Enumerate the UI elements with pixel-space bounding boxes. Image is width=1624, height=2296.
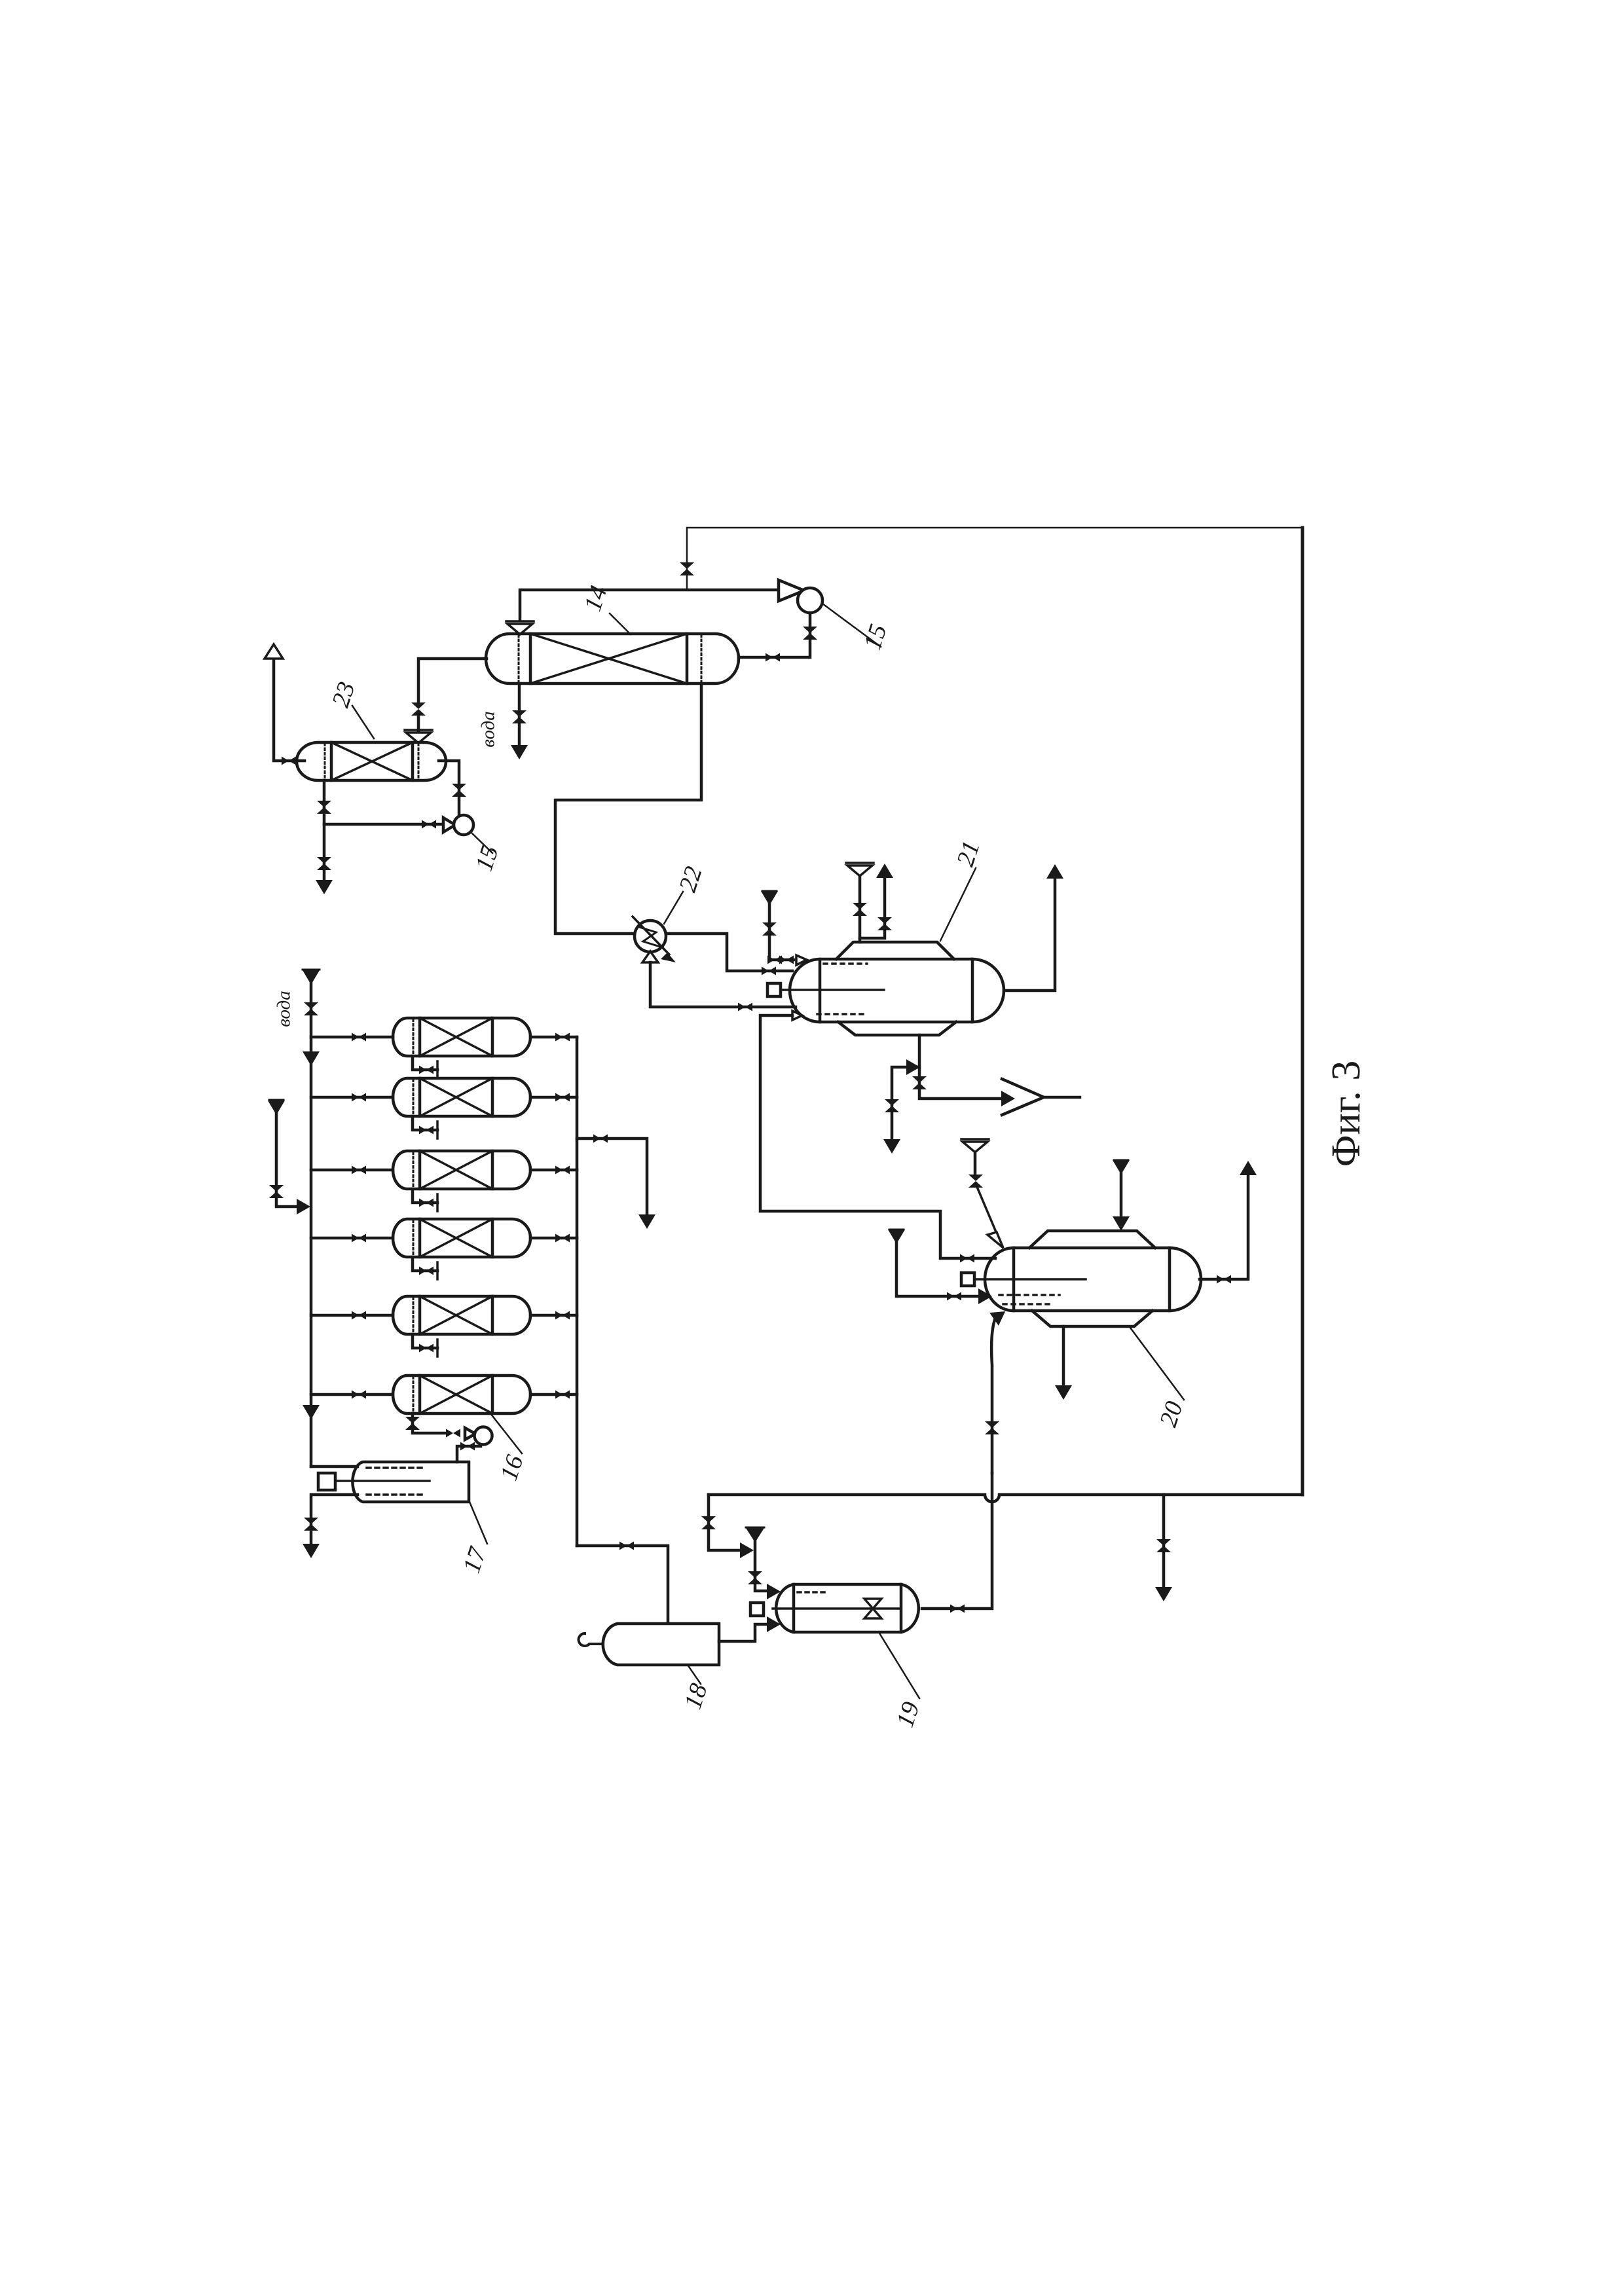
wire vessel 19 outlet riser (922, 1473, 992, 1609)
wire vessel 21 lower outlet down to vessel 20 (760, 1015, 995, 1258)
valve on recycle riser (680, 562, 694, 575)
open arrow vent at vessel 23 outlet (265, 644, 283, 659)
valve on drain lower (317, 857, 331, 870)
wire top feed onto vessel 20 (1120, 1171, 1123, 1218)
flow arrow on manifold lower (303, 1405, 320, 1419)
valve on vessel 21 feed (762, 967, 776, 975)
adsorber vessel 16 row 5 (393, 1296, 530, 1334)
valve row 3 drain (419, 1199, 434, 1207)
valve on recycle drop (701, 1516, 716, 1529)
wire top recycle line (687, 528, 1302, 590)
wire vessel 21 bottom outlet (919, 1035, 1002, 1099)
label 20 with leader (1130, 1328, 1184, 1400)
label 23 with leader (352, 706, 374, 738)
wire row 2 left connection (311, 1096, 393, 1099)
valve row 3 right (555, 1166, 570, 1175)
funnel vent on vessel 21 top (846, 863, 874, 876)
wire right manifold to vessel 18 (577, 1546, 668, 1622)
wire row 6 right connection (530, 1393, 577, 1396)
wire right manifold (576, 1037, 579, 1546)
label 15 upper with leader (822, 604, 881, 647)
wire vent with arrow on vessel 21 top (860, 877, 885, 938)
svg-text:вода: вода (274, 991, 295, 1027)
wire vessel 18 outlet to vessel 19 (719, 1624, 767, 1641)
feed origin marker (762, 890, 777, 892)
wire vessel 14 water drain (518, 683, 521, 745)
funnel inlet on vessel 14 (506, 621, 534, 634)
valve on vessel 23 left outlet (282, 757, 296, 765)
svg-text:Фиг. 3: Фиг. 3 (1324, 1061, 1369, 1167)
vessel 23 (297, 742, 446, 780)
valve before pump 16 (446, 1429, 460, 1438)
wire row 1 drain (413, 1056, 437, 1070)
funnel inlet on vessel 23 (405, 730, 432, 743)
valve on vessel 19 outlet (950, 1605, 965, 1613)
arrow regeneration outlet (638, 1214, 655, 1229)
wire row 5 left connection (311, 1314, 393, 1317)
valve on riser (985, 1421, 999, 1434)
wire top feed into vessel 21 (769, 902, 794, 960)
arrow feed into manifold (297, 1199, 310, 1214)
wire vessel 23 right outlet to pump (439, 761, 459, 815)
heat exchanger 22 (635, 920, 666, 952)
label 14 with leader (610, 613, 631, 634)
level gauge square on vessel 20 (961, 1273, 974, 1286)
vessel 14 (486, 634, 739, 683)
valve row 1 drain (419, 1066, 434, 1074)
arrow vent outlet (876, 864, 893, 878)
arrow bottom drain (1055, 1385, 1072, 1400)
adsorber vessel 16 row 1 (393, 1018, 530, 1056)
arrow product outlet up (1046, 864, 1063, 879)
svg-text:вода: вода (478, 711, 499, 748)
feed funnel marker above vessel 19 (746, 1527, 764, 1529)
adsorber vessel 16 row 3 (393, 1151, 530, 1189)
wire heat exchanger bottom line to vessel 21 lower inlet (650, 962, 796, 1007)
open triangle nozzle below heat exchanger (642, 951, 658, 962)
valve on drain branch (1156, 1539, 1171, 1552)
wire drain tee to pump 15 lower (324, 823, 443, 826)
arrow into vessel 20 left (978, 1288, 992, 1304)
wire branch from bottom outlet to drain (892, 1067, 919, 1139)
pump 15 upper (779, 580, 804, 601)
wire row 2 drain (413, 1116, 437, 1130)
valve on pump discharge riser (803, 627, 817, 640)
feed origin marker (269, 1099, 284, 1101)
wire row 5 drain (413, 1334, 437, 1348)
double valve on vessel 21 upper inlet (767, 956, 782, 964)
label 18 with leader (688, 1665, 701, 1684)
level gauge square on vessel 21 (767, 983, 781, 996)
wire row 1 left connection (311, 1036, 393, 1039)
valve on drain upper (317, 801, 331, 814)
wire feed to vessel 14 funnel (520, 590, 779, 621)
label 17 with leader (470, 1502, 487, 1544)
arrow into junction (906, 1059, 920, 1075)
hook vent on vessel 18 (579, 1633, 601, 1646)
valve on vessel 20 upper inlet (960, 1254, 974, 1263)
wire vessel 20 bottom drain (1062, 1326, 1065, 1385)
wire funnel line to vessel 20 (974, 1152, 977, 1176)
wire manifold into tank 17 top (311, 1465, 358, 1468)
valve on pump 16 discharge (460, 1442, 475, 1451)
wire regeneration branch (577, 1139, 647, 1214)
wire row 5 right connection (530, 1314, 577, 1317)
label 22 with leader (664, 892, 683, 924)
valve on vessel 23 right outlet (452, 784, 466, 797)
valve row 1 left (352, 1033, 366, 1042)
arrow into vessel 19 lower left (767, 1616, 781, 1632)
level gauge square on tank 17 (318, 1473, 335, 1490)
label 16 with leader (490, 1413, 522, 1453)
arrow drain outlet (316, 880, 333, 894)
tank 17 (352, 1462, 469, 1502)
wire vessel 23 bottom drain (323, 780, 326, 881)
valve row 5 drain (419, 1344, 434, 1353)
valve row 1 right (555, 1033, 570, 1042)
wire pump 16 discharge to tank 17 (457, 1446, 481, 1462)
wire row 6 drain to pump 16 (413, 1413, 446, 1433)
level gauge square on vessel 19 (750, 1603, 764, 1616)
arrow into feed line of vessel 19 (740, 1542, 754, 1558)
label 21 with leader (940, 868, 976, 941)
nozzle outlet on vessel 21 lower left (792, 1011, 802, 1020)
valve row 6 left (352, 1391, 366, 1399)
arrow branch drain outlet (883, 1139, 900, 1154)
valve on feed branch (269, 1185, 284, 1198)
valve on funnel line (969, 1175, 983, 1188)
wire feed branch to manifold (276, 1112, 296, 1207)
valve on funnel stub (853, 903, 867, 916)
valve on funnel feed (748, 1571, 762, 1584)
wire funnel feed into vessel 19 (755, 1540, 767, 1591)
wire row 4 right connection (530, 1237, 577, 1240)
wire vessel 20 right outlet (1200, 1175, 1248, 1279)
valve on vessel 23 funnel line (411, 702, 426, 716)
arrow right outlet up (1240, 1161, 1257, 1175)
valve on vessel 18 feed (619, 1542, 634, 1550)
arrow into vessel 20 top (1113, 1216, 1130, 1231)
valve row 5 left (352, 1311, 366, 1320)
wire funnel stub to vessel 21 (858, 876, 862, 942)
valve on lower inlet (738, 1003, 752, 1011)
nozzle into vessel 20 top left (987, 1232, 1003, 1248)
wire drain branch bottom right (1162, 1495, 1166, 1587)
wire right recycle line (1301, 528, 1304, 1495)
wire vessel 14 left outlet to vessel 23 funnel (418, 659, 487, 703)
wire row 3 left connection (311, 1169, 393, 1172)
valve row 4 left (352, 1234, 366, 1243)
valve row 4 drain (419, 1267, 434, 1275)
wire recycle drop to vessel 19 (709, 1495, 747, 1550)
nozzle into vessel 21 upper (796, 955, 807, 965)
wire riser from vessel 19 into vessel 20 bottom left (991, 1320, 995, 1473)
wire heat exchanger outlet to vessel 21 upper inlet (666, 934, 792, 971)
wire row 6 left connection (311, 1393, 393, 1396)
valve row 3 left (352, 1166, 366, 1175)
vessel 21 (790, 959, 1004, 1022)
valve on vent stub (877, 917, 892, 930)
arrow tank 17 drain outlet (303, 1544, 320, 1558)
arrow into vessel 19 upper left (767, 1584, 781, 1599)
wire second feed into vessel 20 left (896, 1240, 980, 1296)
wire row 3 right connection (530, 1169, 577, 1172)
label 15 lower with leader (471, 833, 492, 853)
adsorber vessel 16 row 2 (393, 1078, 530, 1116)
vessel 20 (985, 1248, 1201, 1311)
valve row 2 right (555, 1093, 570, 1102)
vessel 18 (603, 1624, 719, 1665)
agitator in vessel 19 (864, 1599, 881, 1609)
valve before pump 15 lower (422, 820, 436, 829)
valve on top feed riser (762, 922, 777, 936)
funnel feed on vessel 20 (961, 1139, 989, 1152)
inlet marker top of manifold (303, 969, 320, 971)
adsorber vessel 16 row 6 (393, 1376, 530, 1413)
valve water inlet (304, 1002, 318, 1015)
valve row 2 drain (419, 1126, 434, 1135)
valve on vessel 14 right outlet (766, 653, 780, 662)
valve row 6 right (555, 1391, 570, 1399)
vessel 19 (776, 1584, 919, 1632)
wire tank 17 bottom drain (311, 1495, 358, 1545)
wire row 4 left connection (311, 1237, 393, 1240)
valve row 5 right (555, 1311, 570, 1320)
wire vessel 23 left outlet (274, 659, 304, 761)
wire bottom recycle line (709, 1495, 1302, 1502)
wire row 4 drain (413, 1257, 437, 1271)
wire vessel 14 bottom outlet zigzag to heat exchanger 22 (555, 683, 701, 934)
wire vessel 21 right outlet (1004, 878, 1055, 991)
arrow into vessel 20 bottom left (989, 1305, 1010, 1326)
wire row 3 drain (413, 1189, 437, 1203)
valve on water drain (512, 710, 526, 723)
valve on tank 17 drain (304, 1518, 318, 1531)
wire row 2 right connection (530, 1096, 577, 1099)
valve on row 6 drain vertical (405, 1417, 420, 1430)
valve on regeneration branch (593, 1135, 608, 1143)
valve on bottom outlet (912, 1076, 927, 1089)
valve on second feed (947, 1292, 961, 1301)
pump 16 (465, 1428, 475, 1440)
valve on branch drain (885, 1099, 899, 1112)
wire pump 15 upper discharge (739, 613, 810, 657)
wire left manifold (310, 982, 313, 1467)
flow arrow on manifold upper (303, 1051, 320, 1066)
arrow water drain outlet (511, 745, 528, 759)
pump 15 lower (443, 818, 455, 832)
wire row 1 right connection (530, 1036, 577, 1039)
valve row 2 left (352, 1093, 366, 1102)
chevron offsite symbol (1002, 1079, 1044, 1115)
label 19 with leader (879, 1632, 919, 1698)
valve on right outlet (1217, 1275, 1231, 1284)
arrow to offsite chevron (1001, 1091, 1015, 1106)
arrow drain branch outlet (1155, 1587, 1172, 1601)
valve row 4 right (555, 1234, 570, 1243)
adsorber vessel 16 row 4 (393, 1219, 530, 1257)
